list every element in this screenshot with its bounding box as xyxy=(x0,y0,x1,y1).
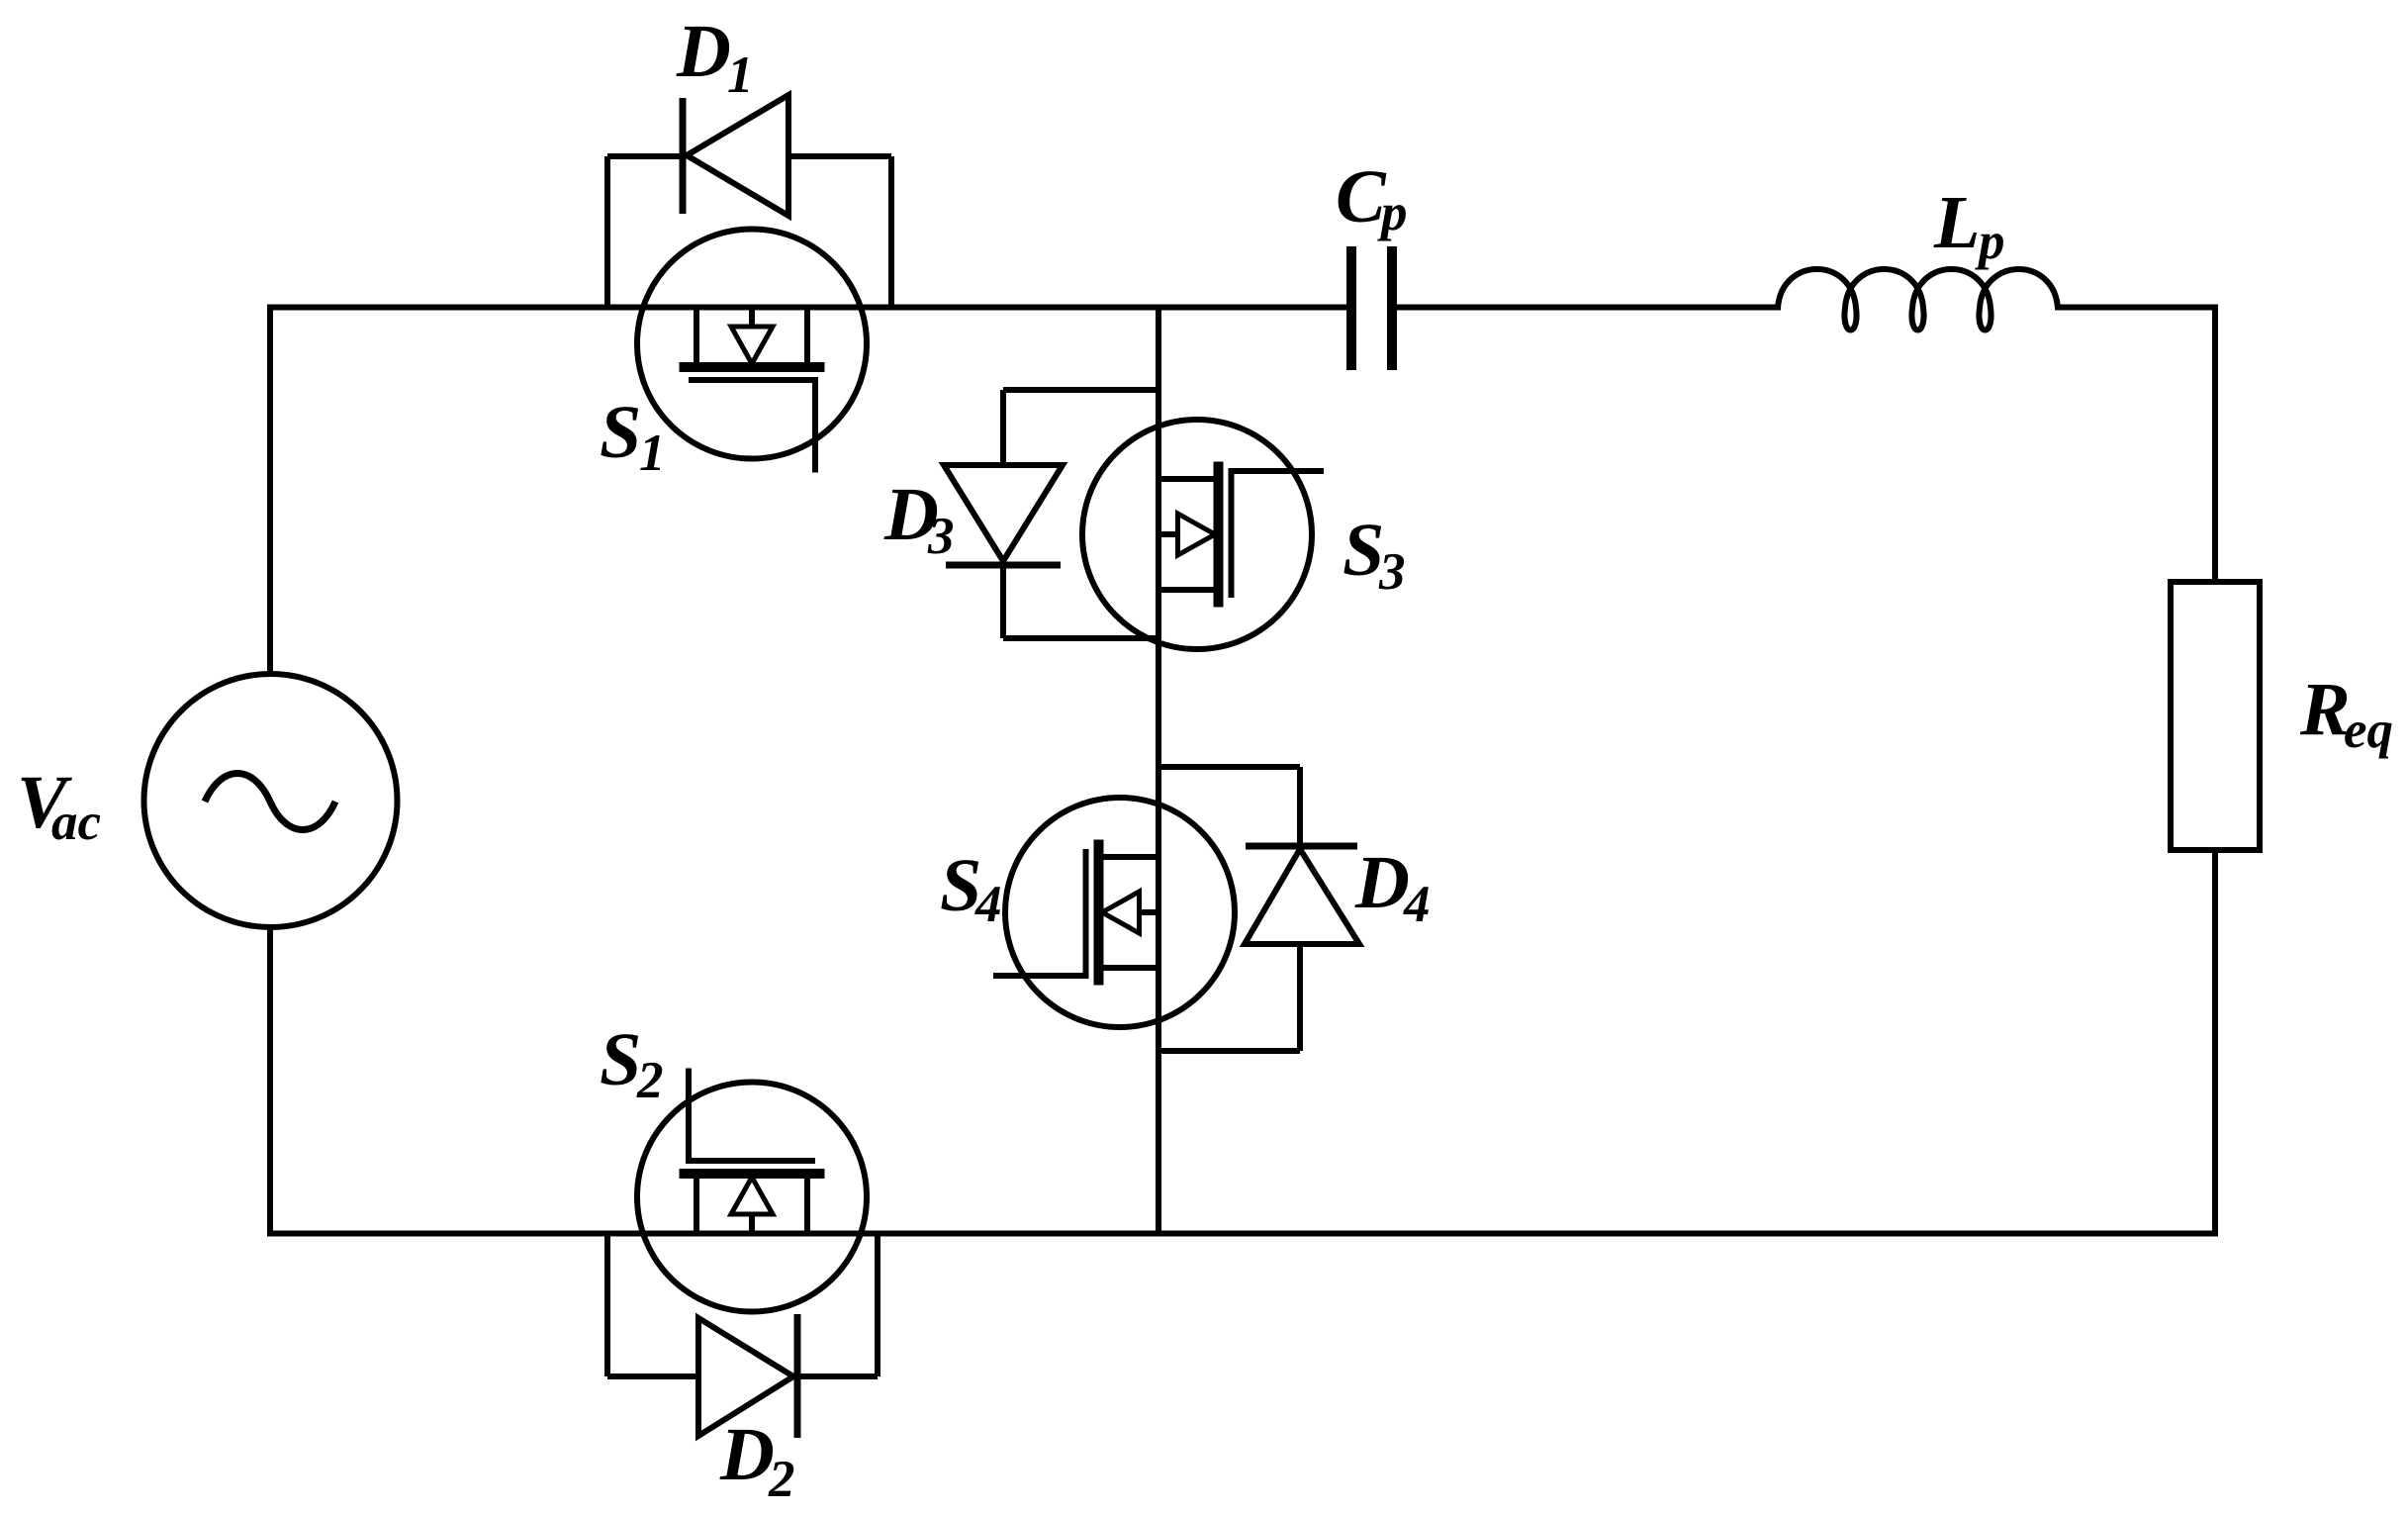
svg-text:4: 4 xyxy=(974,876,1002,933)
svg-text:3: 3 xyxy=(927,508,955,565)
svg-text:4: 4 xyxy=(1403,876,1431,933)
svg-text:R: R xyxy=(2299,668,2351,751)
svg-text:p: p xyxy=(1377,184,1408,241)
svg-text:D: D xyxy=(676,10,731,93)
svg-text:S: S xyxy=(1343,509,1384,592)
svg-text:p: p xyxy=(1975,213,2005,270)
svg-text:2: 2 xyxy=(636,1052,664,1109)
svg-text:3: 3 xyxy=(1378,543,1406,601)
svg-text:C: C xyxy=(1336,155,1387,238)
svg-text:D: D xyxy=(1354,841,1410,924)
svg-text:L: L xyxy=(1933,181,1980,264)
svg-text:1: 1 xyxy=(727,47,754,104)
svg-text:S: S xyxy=(600,391,641,474)
svg-text:eq: eq xyxy=(2344,702,2393,759)
svg-text:ac: ac xyxy=(51,794,101,851)
svg-text:D: D xyxy=(719,1413,775,1496)
svg-text:S: S xyxy=(600,1018,641,1101)
svg-text:1: 1 xyxy=(639,425,666,482)
svg-text:2: 2 xyxy=(768,1451,795,1508)
